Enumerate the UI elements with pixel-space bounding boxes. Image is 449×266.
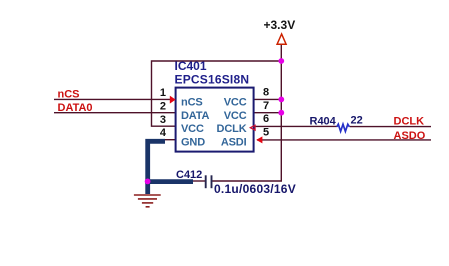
svg-text:nCS: nCS xyxy=(58,88,80,100)
svg-text:3: 3 xyxy=(160,114,166,126)
svg-text:1: 1 xyxy=(160,87,166,99)
svg-text:VCC: VCC xyxy=(224,97,247,109)
svg-text:22: 22 xyxy=(351,115,363,127)
svg-text:2: 2 xyxy=(160,101,166,113)
svg-text:DATA: DATA xyxy=(181,110,210,122)
svg-text:EPCS16SI8N: EPCS16SI8N xyxy=(175,73,250,87)
svg-text:nCS: nCS xyxy=(181,97,203,109)
svg-text:5: 5 xyxy=(263,127,269,139)
svg-text:GND: GND xyxy=(181,137,205,149)
svg-text:R404: R404 xyxy=(310,116,337,128)
svg-text:DCLK: DCLK xyxy=(217,123,247,135)
svg-text:VCC: VCC xyxy=(181,123,204,135)
svg-text:+3.3V: +3.3V xyxy=(264,18,296,32)
svg-text:4: 4 xyxy=(160,127,167,139)
svg-text:C412: C412 xyxy=(176,169,202,181)
svg-text:0.1u/0603/16V: 0.1u/0603/16V xyxy=(214,182,296,196)
svg-text:7: 7 xyxy=(263,100,269,112)
svg-text:8: 8 xyxy=(263,87,269,99)
svg-text:DATA0: DATA0 xyxy=(58,102,93,114)
svg-text:IC401: IC401 xyxy=(175,59,207,73)
svg-text:VCC: VCC xyxy=(224,110,247,122)
svg-text:DCLK: DCLK xyxy=(394,116,425,128)
svg-text:ASDI: ASDI xyxy=(221,137,247,149)
svg-text:6: 6 xyxy=(263,113,269,125)
svg-text:ASDO: ASDO xyxy=(394,130,426,142)
